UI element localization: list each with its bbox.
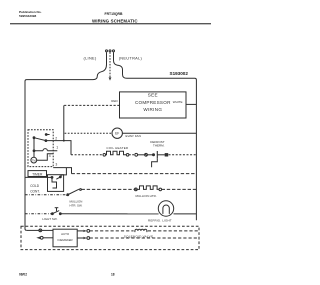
label LIGHT SW. <box>42 217 57 221</box>
connector <box>159 188 162 191</box>
timer label box <box>28 171 47 177</box>
connector <box>134 188 137 191</box>
svg-text:COIL HEATER: COIL HEATER <box>106 146 129 150</box>
timer contact terminal 2 <box>45 140 47 142</box>
wire: light row to lamp <box>60 213 158 215</box>
title WIRING SCHEMATIC <box>92 18 138 23</box>
evap fan motor <box>112 128 122 138</box>
svg-text:COLD: COLD <box>30 184 40 188</box>
timer switch arm pivot column <box>33 137 46 152</box>
defrost timer box (dashed) <box>28 130 53 167</box>
label COIL HEATER <box>106 146 129 150</box>
schematic id S193002 <box>170 71 189 76</box>
refrigerator light bulb <box>158 201 173 216</box>
wire: timer neutral dashed row to bus <box>72 173 197 175</box>
label WHITE <box>173 100 183 104</box>
wire: line bus to cold control <box>25 176 52 178</box>
svg-text:3: 3 <box>55 162 57 166</box>
wire: lamp to bus <box>174 213 197 215</box>
svg-text:4: 4 <box>49 154 51 158</box>
label REFRIG. LIGHT <box>148 219 172 223</box>
water solenoid valve coil <box>135 229 147 232</box>
svg-text:08/02: 08/02 <box>19 273 27 277</box>
mullion heater switch <box>66 189 81 196</box>
svg-text:COMPRESSOR: COMPRESSOR <box>135 100 171 105</box>
wire: evap fan row left (dash-dot) <box>65 132 112 134</box>
label DEFROST THERM. <box>150 140 165 148</box>
svg-text:HTR. SW.: HTR. SW. <box>70 203 83 207</box>
svg-text:RED: RED <box>111 99 118 103</box>
wire: cold control riser to timer terminal 3 <box>61 168 67 177</box>
label (NEUTRAL) <box>119 56 143 61</box>
svg-text:ICEMAKER: ICEMAKER <box>58 238 73 242</box>
wire: dashed to mullion heater <box>82 188 135 190</box>
wire: dashed bottom row to enclosure edge <box>90 237 199 239</box>
svg-text:THERM.: THERM. <box>153 144 165 148</box>
wire: evap fan row right to bus <box>122 132 196 134</box>
wire: light switch row from bus <box>25 213 52 215</box>
wire: dashed mullion row to bus <box>162 188 197 190</box>
svg-text:AUTO: AUTO <box>61 232 70 236</box>
model number FRT15QRB <box>105 12 123 16</box>
ground prong dashed lead with arrow <box>109 52 112 80</box>
light switch <box>51 208 61 215</box>
cold control box <box>48 175 64 192</box>
svg-text:REFRIG. LIGHT: REFRIG. LIGHT <box>148 219 172 223</box>
svg-text:TM: TM <box>32 158 36 162</box>
svg-text:CONT.: CONT. <box>30 190 40 194</box>
timer open contact stub <box>45 134 49 136</box>
svg-text:WIRING: WIRING <box>143 107 162 112</box>
wire: terminal 3 jog to neutral row <box>53 168 71 174</box>
wire: neutral side from plug to right bus <box>114 61 197 221</box>
compressor box <box>120 92 187 118</box>
connector <box>103 154 106 157</box>
svg-text:EF: EF <box>115 132 119 136</box>
label MULLION HTR. <box>136 194 157 198</box>
label terminal 2 <box>55 137 57 141</box>
power plug prongs <box>106 50 115 65</box>
timer motor TM <box>31 151 37 163</box>
svg-text:EVAP. FAN: EVAP. FAN <box>126 134 141 138</box>
label EVAP. FAN <box>126 134 141 138</box>
label terminal 1 <box>56 145 58 149</box>
publication number text <box>19 10 42 18</box>
svg-text:MULLION HTR.: MULLION HTR. <box>136 194 157 198</box>
header rule <box>10 23 211 24</box>
svg-text:WIRING SCHEMATIC: WIRING SCHEMATIC <box>92 18 138 23</box>
wire: timer motor to terminal 4 <box>37 154 54 160</box>
label SOLENOID VALVE <box>124 234 153 238</box>
wire: terminal 1 with crossover bump <box>34 149 57 151</box>
label terminal 4 <box>49 154 51 158</box>
junction node <box>63 140 65 142</box>
svg-text:1: 1 <box>56 145 58 149</box>
svg-text:FRT15QRB: FRT15QRB <box>105 12 123 16</box>
svg-text:18: 18 <box>111 273 115 277</box>
icemaker second lead with plug <box>36 236 53 239</box>
svg-text:WHITE: WHITE <box>173 100 183 104</box>
footer page number <box>111 273 115 277</box>
mullion heater resistor <box>137 186 159 190</box>
svg-text:2: 2 <box>55 137 57 141</box>
svg-text:SEE: SEE <box>148 92 158 97</box>
wire: mullion switch row from bus <box>25 194 68 196</box>
footer date <box>19 273 27 277</box>
auto icemaker box <box>53 229 77 247</box>
wire: dashed to coil heater <box>71 154 103 156</box>
coil heater resistor <box>106 151 127 155</box>
wire: dashes to defrost thermostat plug <box>129 154 135 156</box>
svg-text:LIGHT SW.: LIGHT SW. <box>42 217 57 221</box>
label RED <box>111 99 118 103</box>
wire: dashed solenoid to enclosure edge <box>148 230 199 232</box>
wire: line side from plug to left bus <box>25 65 107 231</box>
icemaker right plug bottom <box>77 237 90 240</box>
wire: coil heater jog from junction <box>64 141 71 155</box>
wire: dashed defrost row to bus <box>169 154 197 156</box>
connector <box>126 154 129 157</box>
svg-text:(LINE): (LINE) <box>84 56 97 61</box>
defrost thermostat bimetal hook <box>152 159 158 168</box>
wire: white neutral to bus <box>186 103 196 105</box>
svg-text:S193002: S193002 <box>170 71 189 76</box>
svg-text:5995342398: 5995342398 <box>19 14 36 18</box>
svg-text:(NEUTRAL): (NEUTRAL) <box>119 56 143 61</box>
defrost thermostat <box>147 151 167 159</box>
icemaker right plug top <box>77 230 90 233</box>
wire: red dashed from compressor box to junction <box>64 104 120 106</box>
cold control bellows element <box>52 177 57 188</box>
label terminal 3 <box>55 162 57 166</box>
wire: dashed to solenoid valve <box>90 230 134 232</box>
wire: terminal 2 to junction <box>46 140 64 142</box>
plug connector pair <box>135 153 148 156</box>
icemaker dashed enclosure <box>21 226 199 249</box>
label (LINE) <box>84 56 97 61</box>
wire: red vertical drop <box>63 105 65 140</box>
svg-text:TIMER: TIMER <box>32 172 43 176</box>
label COLD CONT. <box>30 184 40 194</box>
wire: bus to icemaker with connector <box>27 229 53 232</box>
cold control contacts <box>51 176 61 179</box>
label MULLION HTR. SW. <box>70 199 83 207</box>
